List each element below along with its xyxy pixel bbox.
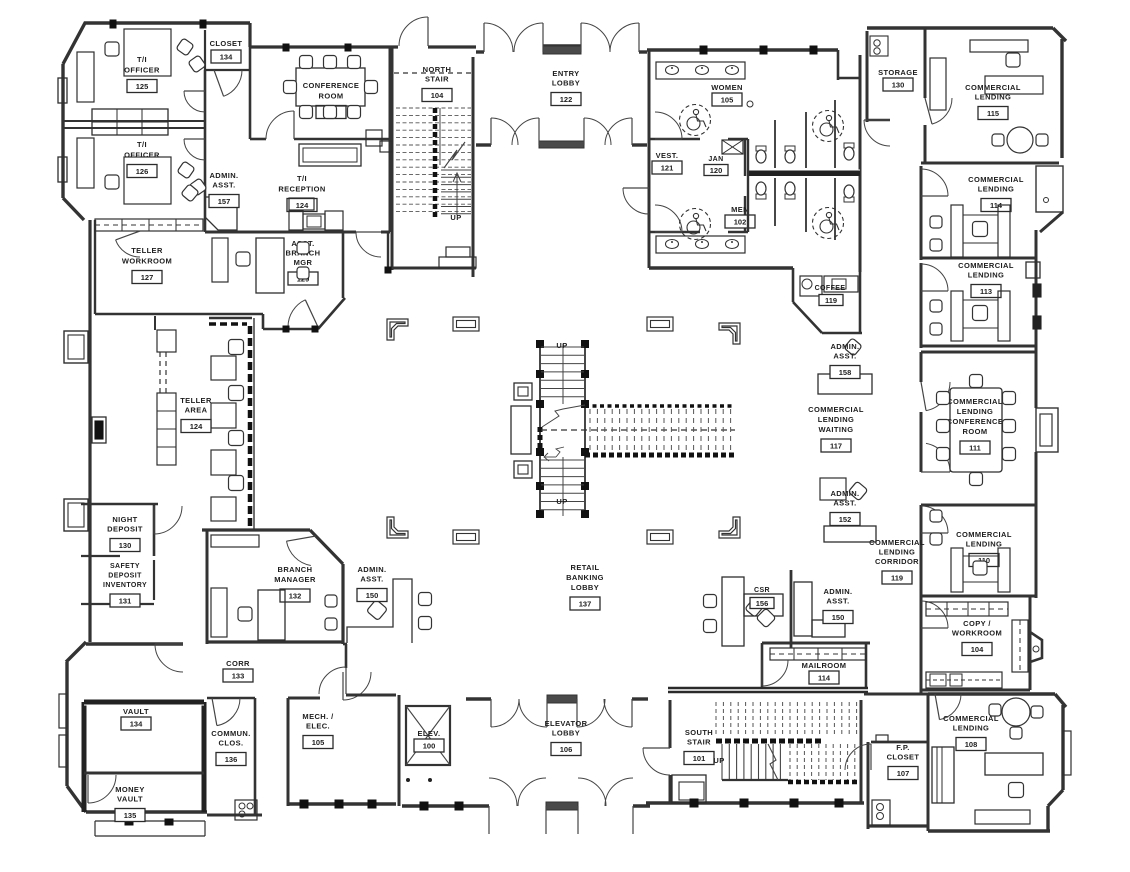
svg-text:DEPOSIT: DEPOSIT bbox=[108, 573, 142, 580]
svg-text:RECEPTION: RECEPTION bbox=[278, 185, 325, 194]
women lavatory counter bbox=[656, 62, 745, 79]
accessible stalls right wheelchair symbols bbox=[813, 111, 844, 239]
svg-text:ADMIN.: ADMIN. bbox=[830, 489, 859, 498]
commercial lending 110 room bbox=[921, 505, 1036, 598]
svg-text:DEPOSIT: DEPOSIT bbox=[107, 525, 143, 534]
svg-text:UP: UP bbox=[556, 341, 567, 350]
lobby planters west of stair bbox=[511, 383, 532, 478]
svg-text:NORTH: NORTH bbox=[423, 65, 452, 74]
label BRANCH MANAGER 132 bbox=[274, 565, 316, 584]
left window bay upper bbox=[64, 331, 88, 363]
corridor south wall segment and mech entry bbox=[343, 644, 347, 668]
conf 111 table and chairs bbox=[937, 375, 1016, 486]
svg-text:ADMIN.: ADMIN. bbox=[209, 171, 238, 180]
central stair lower treads bbox=[541, 457, 584, 516]
svg-text:STAIR: STAIR bbox=[425, 75, 449, 84]
svg-text:UP: UP bbox=[713, 756, 724, 765]
branch manager door on chamfer bbox=[287, 541, 311, 565]
north stair exterior door bbox=[399, 17, 428, 46]
coffee counter and sink bbox=[800, 276, 858, 296]
commercial lending conference room 111 bbox=[921, 346, 1058, 505]
svg-text:ASST.: ASST. bbox=[833, 499, 856, 508]
label MONEY VAULT 135 bbox=[115, 785, 145, 804]
women room door bbox=[655, 112, 682, 139]
vault divider wall bbox=[84, 772, 204, 775]
central monumental stair west rail bbox=[537, 341, 544, 518]
svg-text:UP: UP bbox=[450, 213, 461, 222]
fp closet 107 walls bbox=[868, 735, 928, 829]
svg-text:LENDING: LENDING bbox=[957, 407, 994, 416]
cl108 door bbox=[940, 694, 962, 720]
svg-text:LENDING: LENDING bbox=[818, 415, 855, 424]
admin assistant 150 station right of branch manager bbox=[347, 579, 432, 643]
svg-text:CONFERENCE: CONFERENCE bbox=[947, 417, 1004, 426]
north stair label 104 bbox=[423, 65, 452, 84]
svg-text:ASST.: ASST. bbox=[826, 597, 849, 606]
reception desk bbox=[289, 198, 343, 230]
label ADMIN ASST 157 bbox=[209, 171, 238, 190]
label COMMUN CLOS 136 bbox=[211, 729, 250, 748]
svg-text:111: 111 bbox=[969, 443, 981, 452]
svg-text:ELEVATOR: ELEVATOR bbox=[545, 719, 588, 728]
svg-text:121: 121 bbox=[661, 163, 674, 172]
svg-text:119: 119 bbox=[891, 573, 903, 582]
copy room door bbox=[921, 601, 948, 628]
room label CLOSET 134 bbox=[210, 39, 243, 48]
accessible ramp hatch top edge bbox=[585, 404, 735, 408]
svg-text:ASST.: ASST. bbox=[212, 181, 235, 190]
svg-text:T/I: T/I bbox=[137, 55, 147, 64]
svg-text:ADMIN.: ADMIN. bbox=[357, 565, 386, 574]
label MEN 102 bbox=[731, 205, 749, 214]
label ADMIN ASST 158 bbox=[830, 342, 859, 361]
safety deposit inventory 131 room bbox=[81, 560, 154, 604]
svg-text:ASST.: ASST. bbox=[833, 352, 856, 361]
svg-text:LOBBY: LOBBY bbox=[552, 729, 580, 738]
teller counter bbox=[209, 318, 254, 530]
svg-text:ASST.: ASST. bbox=[360, 575, 383, 584]
svg-text:SOUTH: SOUTH bbox=[685, 728, 713, 737]
svg-text:RETAIL: RETAIL bbox=[571, 563, 600, 572]
night deposit door bbox=[154, 506, 182, 534]
money vault door bbox=[88, 775, 116, 803]
teller side tables bbox=[211, 356, 236, 521]
label TELLER AREA 124 bbox=[180, 396, 212, 415]
room label T/I RECEPTION 124 bbox=[278, 174, 325, 194]
men accessible wheelchair symbol bbox=[680, 209, 711, 240]
svg-text:ENTRY: ENTRY bbox=[552, 69, 579, 78]
fp closet door bbox=[845, 744, 871, 770]
svg-text:NIGHT: NIGHT bbox=[112, 515, 137, 524]
svg-text:124: 124 bbox=[190, 422, 203, 431]
label MECH ELEC 105 bbox=[302, 712, 334, 731]
svg-text:115: 115 bbox=[987, 109, 999, 118]
svg-text:INVENTORY: INVENTORY bbox=[103, 582, 147, 589]
svg-text:UP: UP bbox=[556, 497, 567, 506]
svg-text:T/I: T/I bbox=[297, 174, 307, 183]
svg-text:101: 101 bbox=[693, 754, 706, 763]
officer 125 furniture: couch, chair, desk, guest chairs, worktable bbox=[77, 29, 206, 102]
corridor south end wall above fp closet bbox=[864, 693, 928, 696]
window mullion ticks top-left bbox=[110, 20, 351, 51]
teller back counter cabinets bbox=[155, 316, 176, 465]
men room door bbox=[655, 205, 682, 232]
south exterior wall ticks near elevator lobby bbox=[420, 802, 463, 810]
svg-text:COPY /: COPY / bbox=[963, 619, 991, 628]
lobby corner bracket bottom-left bbox=[387, 517, 408, 538]
svg-text:113: 113 bbox=[980, 287, 992, 296]
svg-text:CONFERENCE: CONFERENCE bbox=[303, 81, 360, 90]
central stair break diagonal bbox=[542, 405, 585, 427]
svg-text:150: 150 bbox=[366, 591, 379, 600]
south stair break symbol bbox=[768, 744, 778, 780]
svg-text:MGR: MGR bbox=[294, 258, 313, 267]
storage door bbox=[864, 120, 890, 146]
CSR station left bbox=[704, 577, 784, 646]
men room north wall bbox=[649, 196, 748, 232]
svg-text:108: 108 bbox=[965, 740, 978, 749]
svg-text:STAIR: STAIR bbox=[687, 738, 711, 747]
lobby colonnade pilasters bottom bbox=[453, 530, 673, 544]
svg-text:126: 126 bbox=[136, 167, 149, 176]
lobby corner bracket top-left bbox=[387, 319, 408, 340]
svg-text:VAULT: VAULT bbox=[123, 707, 149, 716]
svg-text:MEN: MEN bbox=[731, 205, 749, 214]
label COMMERCIAL LENDING 115 bbox=[965, 83, 1021, 102]
svg-text:ELEV.: ELEV. bbox=[418, 729, 441, 738]
window ticks on cl113 right wall bbox=[1033, 284, 1041, 329]
coffee room 119 walls bbox=[793, 268, 862, 333]
label COMMERCIAL LENDING 110 bbox=[956, 530, 1012, 549]
svg-text:135: 135 bbox=[124, 811, 137, 820]
label COPY WORKROOM 104 bbox=[952, 619, 1002, 638]
svg-text:VAULT: VAULT bbox=[117, 795, 143, 804]
vault 134 strongroom walls bbox=[84, 702, 204, 812]
lobby corner bracket top-right bbox=[719, 323, 740, 344]
label ELEVATOR LOBBY 106 bbox=[545, 719, 588, 738]
room label T/I OFFICER 125 bbox=[124, 55, 160, 75]
entry lobby exterior wall and piers bbox=[476, 46, 647, 54]
svg-text:LOBBY: LOBBY bbox=[571, 583, 599, 592]
left outer corridor wall bbox=[88, 220, 91, 642]
corridor south door to lobby bbox=[343, 672, 371, 700]
south stair vestibule bbox=[672, 775, 706, 803]
svg-text:OFFICER: OFFICER bbox=[124, 151, 160, 160]
svg-text:156: 156 bbox=[756, 599, 769, 608]
mech window ticks bbox=[300, 800, 376, 808]
svg-text:152: 152 bbox=[839, 515, 852, 524]
svg-text:CSR: CSR bbox=[754, 587, 770, 594]
label CSR 156 bbox=[750, 587, 774, 609]
svg-text:OFFICER: OFFICER bbox=[124, 66, 160, 75]
admin assistant 152 workstation bbox=[820, 478, 876, 542]
copy room counters bbox=[926, 602, 1028, 688]
vault block outer walls bbox=[66, 642, 207, 812]
entry exterior door arcs north bbox=[484, 23, 639, 52]
svg-text:WOMEN: WOMEN bbox=[711, 83, 743, 92]
asst branch mgr 129 room walls bbox=[263, 232, 345, 329]
cl113 desk furniture bbox=[930, 291, 1010, 341]
women room south wall bbox=[649, 139, 748, 176]
mech room door from corridor bbox=[319, 667, 346, 694]
label COMMERCIAL LENDING 113 bbox=[958, 261, 1014, 280]
admin assistant 150 lobby station bbox=[756, 582, 845, 637]
restroom block outer walls bbox=[647, 50, 860, 272]
south stair mid rail black band bbox=[716, 739, 822, 744]
elevator lobby south exterior door arcs bbox=[489, 778, 633, 834]
asst branch mgr door on chamfer bbox=[288, 300, 305, 327]
elevator lobby north door arcs bbox=[491, 699, 632, 727]
svg-text:MANAGER: MANAGER bbox=[274, 575, 316, 584]
label ADMIN ASST 150 bbox=[357, 565, 386, 584]
mech elec 105 room walls bbox=[288, 695, 396, 806]
branch manager furniture bbox=[211, 535, 337, 640]
elevator lobby north wall piers bbox=[466, 695, 648, 703]
vest door to entry bbox=[623, 188, 649, 214]
mailroom door bbox=[762, 660, 788, 686]
storage fixtures bbox=[870, 36, 888, 56]
svg-text:COFFEE: COFFEE bbox=[815, 285, 846, 292]
lobby colonnade pilasters top bbox=[453, 317, 673, 331]
commercial lending 108 room walls bbox=[928, 694, 1066, 831]
svg-text:LENDING: LENDING bbox=[968, 271, 1005, 280]
svg-text:157: 157 bbox=[218, 197, 231, 206]
entry lobby label 122 bbox=[552, 69, 580, 88]
svg-text:ADMIN.: ADMIN. bbox=[830, 342, 859, 351]
svg-text:158: 158 bbox=[839, 368, 852, 377]
label COMMERCIAL LENDING 108 bbox=[943, 714, 999, 733]
vestibule label VEST 121 bbox=[656, 151, 679, 160]
central stair mid dashed line bbox=[541, 429, 735, 431]
commercial lending waiting label 117 bbox=[808, 405, 864, 434]
central stair lower arrow bbox=[544, 447, 564, 461]
dashed stair line upper bbox=[394, 72, 471, 74]
svg-text:ADMIN.: ADMIN. bbox=[823, 587, 852, 596]
svg-text:STORAGE: STORAGE bbox=[878, 68, 918, 77]
fixture circle near copy bay bbox=[1033, 646, 1039, 652]
toilets lower row bbox=[756, 182, 854, 202]
svg-text:102: 102 bbox=[734, 217, 747, 226]
svg-text:VEST.: VEST. bbox=[656, 151, 679, 160]
svg-text:COMMERCIAL: COMMERCIAL bbox=[869, 538, 925, 547]
svg-text:TELLER: TELLER bbox=[131, 246, 163, 255]
cl110 door bbox=[921, 506, 948, 533]
room label TELLER WORKROOM 127 bbox=[122, 246, 172, 266]
building outer shell - top-left office suite bbox=[63, 23, 250, 220]
svg-text:119: 119 bbox=[825, 296, 837, 305]
label ELEV 100 bbox=[418, 729, 441, 738]
svg-text:132: 132 bbox=[289, 591, 302, 600]
label MAILROOM 114 bbox=[802, 661, 847, 670]
room label ASST BRANCH MGR 129 bbox=[286, 239, 321, 267]
teller workroom door bbox=[116, 240, 140, 257]
corridor 133 label bbox=[226, 659, 250, 668]
asst branch mgr furniture bbox=[212, 238, 309, 293]
svg-text:COMMUN.: COMMUN. bbox=[211, 729, 250, 738]
svg-text:130: 130 bbox=[892, 80, 905, 89]
svg-text:JAN: JAN bbox=[708, 156, 723, 163]
svg-text:125: 125 bbox=[136, 82, 149, 91]
toilets upper row bbox=[756, 143, 854, 163]
north stair up arrow bbox=[450, 173, 461, 222]
svg-text:127: 127 bbox=[141, 273, 154, 282]
stair window bay left bbox=[380, 141, 392, 152]
left window bumps vault block bbox=[59, 694, 67, 767]
north stair break symbol bbox=[444, 142, 465, 168]
north stair treads bbox=[396, 108, 471, 218]
conference room 128 walls bbox=[250, 47, 390, 139]
column dots at teller wall bbox=[283, 326, 318, 332]
svg-text:WORKROOM: WORKROOM bbox=[122, 257, 172, 266]
cl110 desk furniture bbox=[930, 510, 1010, 592]
night deposit 130 room bbox=[81, 504, 158, 556]
svg-text:LOBBY: LOBBY bbox=[552, 79, 580, 88]
closet 134 walls bbox=[205, 30, 250, 70]
svg-text:BANKING: BANKING bbox=[566, 573, 604, 582]
svg-text:COMMERCIAL: COMMERCIAL bbox=[947, 397, 1003, 406]
svg-text:137: 137 bbox=[579, 599, 592, 608]
west colonnade wall stub bbox=[385, 232, 391, 273]
cl113 door bbox=[921, 264, 948, 291]
svg-text:106: 106 bbox=[560, 745, 573, 754]
room label T/I OFFICER 126 bbox=[124, 140, 160, 160]
label STORAGE 130 bbox=[878, 68, 918, 77]
janitor closet 120 bbox=[722, 140, 743, 154]
label SOUTH STAIR 101 bbox=[685, 728, 713, 747]
copy workroom 104 walls bbox=[921, 596, 1042, 694]
svg-text:150: 150 bbox=[832, 613, 845, 622]
south exterior wall ticks under stair bbox=[690, 799, 843, 807]
label ADMIN ASST 152 bbox=[830, 489, 859, 508]
entry inner wall and piers bbox=[476, 141, 647, 148]
reception credenza along conference wall bbox=[299, 130, 382, 166]
label FP CLOSET 107 bbox=[887, 743, 920, 762]
shared worktable between officers bbox=[92, 109, 168, 135]
commun closet door bbox=[217, 698, 240, 726]
svg-text:ROOM: ROOM bbox=[319, 92, 344, 101]
svg-text:LENDING: LENDING bbox=[879, 548, 916, 557]
label SAFETY DEPOSIT INVENTORY 131 bbox=[103, 563, 147, 589]
north stair 104 room walls bbox=[392, 47, 476, 277]
svg-text:MONEY: MONEY bbox=[115, 785, 145, 794]
label WOMEN 105 bbox=[711, 83, 743, 92]
south stair hatched landing dashes upper bbox=[716, 702, 857, 737]
commun closet conduits bbox=[235, 800, 257, 820]
elevator shaft 100 bbox=[406, 706, 450, 765]
south stair lower treads bbox=[722, 744, 788, 780]
svg-text:136: 136 bbox=[225, 755, 238, 764]
label COMMERCIAL LENDING 114 bbox=[968, 175, 1024, 194]
south stair door to elevator lobby bbox=[643, 748, 670, 775]
central stair upper treads bbox=[541, 344, 584, 404]
teller workroom 127 walls and cabinets bbox=[95, 219, 263, 314]
cl108 couch bbox=[975, 810, 1030, 824]
elevator lobby south wall piers bbox=[402, 802, 650, 810]
wall top of conference room and north stair bbox=[250, 45, 476, 48]
room label CONFERENCE ROOM 128 bbox=[303, 81, 360, 101]
restroom plumbing wall bbox=[748, 139, 860, 232]
women accessible wheelchair symbol bbox=[680, 105, 711, 136]
svg-text:MAILROOM: MAILROOM bbox=[802, 661, 847, 670]
elevator call dots bbox=[406, 778, 432, 782]
door reception to lobby bbox=[356, 232, 381, 257]
mailroom 114 walls bbox=[762, 643, 870, 690]
svg-text:CORRIDOR: CORRIDOR bbox=[875, 557, 919, 566]
svg-text:CLOS.: CLOS. bbox=[219, 739, 244, 748]
door officer 125 bbox=[184, 91, 205, 112]
svg-text:COMMERCIAL: COMMERCIAL bbox=[958, 261, 1014, 270]
svg-text:124: 124 bbox=[296, 201, 309, 210]
entry inner door arcs bbox=[491, 118, 632, 145]
svg-text:105: 105 bbox=[721, 95, 734, 104]
svg-text:ROOM: ROOM bbox=[963, 427, 988, 436]
svg-text:TELLER: TELLER bbox=[180, 396, 212, 405]
svg-text:LENDING: LENDING bbox=[966, 540, 1003, 549]
accessible ramp hatch bottom edge bbox=[585, 453, 735, 458]
svg-text:T/I: T/I bbox=[137, 140, 147, 149]
cl114 door bbox=[921, 169, 948, 196]
small fixture circle bbox=[747, 101, 753, 107]
svg-text:COMMERCIAL: COMMERCIAL bbox=[965, 83, 1021, 92]
svg-text:134: 134 bbox=[130, 719, 143, 728]
label JAN 120 bbox=[704, 156, 728, 176]
CSR divider wall bbox=[790, 570, 793, 648]
svg-text:SAFETY: SAFETY bbox=[110, 563, 140, 570]
commercial lending 115 room bbox=[921, 28, 1066, 163]
svg-text:114: 114 bbox=[818, 673, 831, 682]
label ADMIN ASST 150 south bbox=[823, 587, 852, 606]
officer 126 furniture bbox=[77, 138, 207, 204]
vault door bbox=[155, 644, 183, 672]
svg-text:LENDING: LENDING bbox=[978, 185, 1015, 194]
svg-text:LENDING: LENDING bbox=[953, 724, 990, 733]
svg-text:120: 120 bbox=[710, 166, 723, 175]
central monumental stair east rail bbox=[582, 341, 589, 518]
south stair lower dashes right bbox=[788, 744, 860, 782]
svg-text:AREA: AREA bbox=[185, 406, 208, 415]
door officer 126 bbox=[184, 139, 205, 160]
cl114 desk furniture bbox=[930, 205, 1010, 257]
vault block footing lines bbox=[95, 819, 205, 836]
restroom window ticks top bbox=[700, 46, 817, 54]
svg-text:134: 134 bbox=[220, 52, 233, 61]
commercial lending corridor label 119 bbox=[869, 538, 925, 566]
men lavatory counter bbox=[656, 236, 745, 253]
svg-text:COMMERCIAL: COMMERCIAL bbox=[968, 175, 1024, 184]
cl115 door bbox=[932, 98, 952, 124]
svg-text:CLOSET: CLOSET bbox=[210, 39, 243, 48]
svg-text:MECH. /: MECH. / bbox=[302, 712, 334, 721]
svg-text:COMMERCIAL: COMMERCIAL bbox=[808, 405, 864, 414]
admin assistant 158 workstation near coffee bbox=[818, 338, 872, 394]
T/I reception area walls bbox=[205, 47, 390, 232]
svg-text:CLOSET: CLOSET bbox=[887, 753, 920, 762]
cl108 round table and chairs bbox=[989, 698, 1043, 739]
central stair UP labels bbox=[556, 341, 567, 506]
conference room door bbox=[266, 111, 294, 139]
svg-text:122: 122 bbox=[560, 95, 573, 104]
svg-text:131: 131 bbox=[119, 596, 132, 605]
label COMMERCIAL LENDING CONFERENCE ROOM 111 bbox=[947, 397, 1004, 436]
svg-text:COMMERCIAL: COMMERCIAL bbox=[956, 530, 1012, 539]
teller chairs bbox=[229, 340, 244, 491]
water heater fixtures bbox=[872, 800, 890, 825]
cl115 furniture bbox=[930, 40, 1048, 153]
cl108 desk and chair bbox=[985, 753, 1043, 798]
conference table and chairs bbox=[284, 56, 378, 119]
lobby corner bracket bottom-right bbox=[719, 517, 740, 538]
svg-text:ELEC.: ELEC. bbox=[306, 722, 330, 731]
